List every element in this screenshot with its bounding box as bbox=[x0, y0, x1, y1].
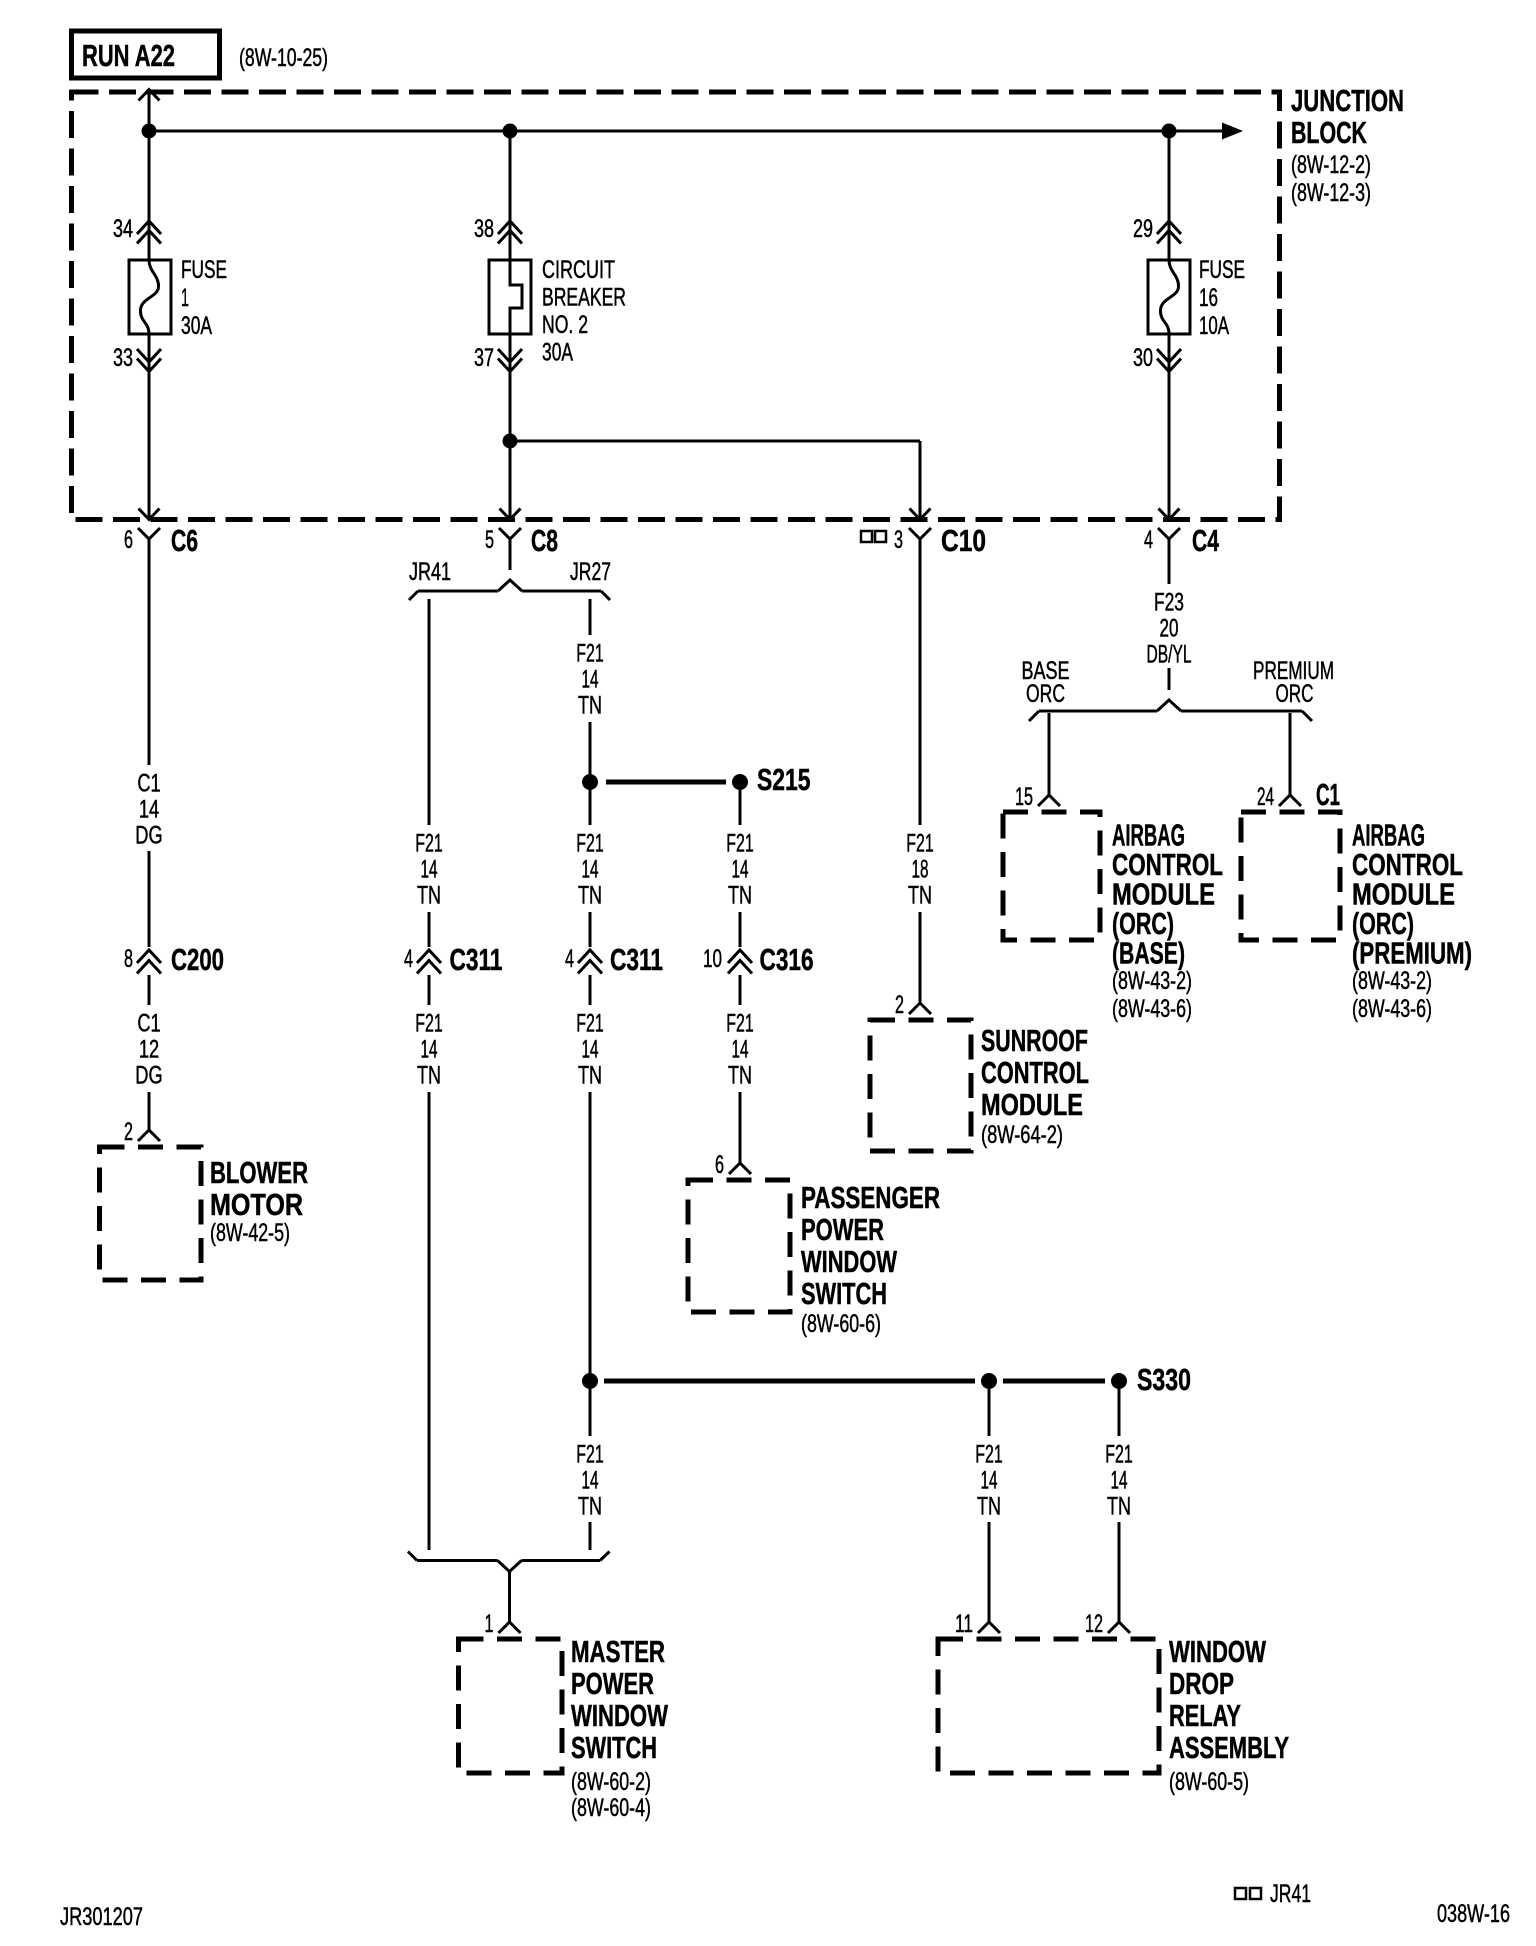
svg-text:(8W-42-5): (8W-42-5) bbox=[210, 1219, 290, 1247]
svg-text:F21: F21 bbox=[576, 1009, 604, 1037]
svg-text:2: 2 bbox=[895, 991, 904, 1019]
svg-text:TN: TN bbox=[908, 881, 932, 909]
svg-text:C311: C311 bbox=[610, 942, 663, 977]
svg-text:DB/YL: DB/YL bbox=[1147, 640, 1192, 668]
svg-text:1: 1 bbox=[485, 1610, 494, 1638]
svg-text:30A: 30A bbox=[181, 312, 212, 340]
svg-text:(8W-12-2): (8W-12-2) bbox=[1291, 151, 1371, 179]
svg-text:11: 11 bbox=[955, 1610, 973, 1638]
svg-text:14: 14 bbox=[421, 1035, 438, 1063]
svg-text:(8W-64-2): (8W-64-2) bbox=[981, 1121, 1063, 1149]
svg-text:TN: TN bbox=[578, 881, 602, 909]
svg-text:C200: C200 bbox=[171, 942, 224, 977]
svg-text:CIRCUIT: CIRCUIT bbox=[542, 256, 615, 284]
svg-text:038W-16: 038W-16 bbox=[1437, 1900, 1510, 1928]
svg-text:JR41: JR41 bbox=[409, 558, 451, 586]
svg-text:NO. 2: NO. 2 bbox=[542, 311, 588, 339]
svg-text:BLOCK: BLOCK bbox=[1291, 115, 1367, 150]
svg-text:(8W-12-3): (8W-12-3) bbox=[1291, 179, 1371, 207]
svg-text:JR301207: JR301207 bbox=[60, 1903, 143, 1931]
svg-text:F21: F21 bbox=[415, 1009, 443, 1037]
svg-text:TN: TN bbox=[417, 881, 441, 909]
svg-text:30: 30 bbox=[1133, 344, 1153, 372]
svg-text:(8W-10-25): (8W-10-25) bbox=[239, 44, 328, 72]
svg-text:C1: C1 bbox=[137, 769, 160, 797]
svg-text:F23: F23 bbox=[1154, 588, 1184, 616]
svg-text:14: 14 bbox=[582, 665, 599, 693]
svg-text:24: 24 bbox=[1257, 783, 1274, 811]
svg-text:F21: F21 bbox=[576, 639, 604, 667]
svg-text:(8W-43-2): (8W-43-2) bbox=[1112, 967, 1192, 995]
svg-text:C316: C316 bbox=[760, 942, 814, 977]
svg-text:ORC: ORC bbox=[1026, 680, 1065, 708]
svg-text:(PREMIUM): (PREMIUM) bbox=[1352, 935, 1472, 970]
svg-text:5: 5 bbox=[485, 526, 494, 554]
svg-text:29: 29 bbox=[1133, 215, 1153, 243]
svg-text:DG: DG bbox=[135, 1061, 162, 1089]
svg-text:JR41: JR41 bbox=[1270, 1880, 1311, 1908]
svg-text:6: 6 bbox=[715, 1151, 724, 1179]
svg-text:BREAKER: BREAKER bbox=[542, 284, 626, 312]
svg-text:WINDOW: WINDOW bbox=[1169, 1634, 1267, 1669]
svg-text:14: 14 bbox=[981, 1466, 998, 1494]
svg-text:4: 4 bbox=[404, 945, 413, 973]
svg-text:(8W-43-2): (8W-43-2) bbox=[1352, 967, 1432, 995]
svg-text:30A: 30A bbox=[542, 339, 573, 367]
svg-text:FUSE: FUSE bbox=[1199, 256, 1245, 284]
svg-text:JUNCTION: JUNCTION bbox=[1291, 83, 1404, 118]
svg-text:WINDOW: WINDOW bbox=[571, 1698, 669, 1733]
svg-text:4: 4 bbox=[1144, 526, 1153, 554]
svg-text:20: 20 bbox=[1160, 614, 1179, 642]
svg-text:F21: F21 bbox=[726, 829, 754, 857]
svg-text:16: 16 bbox=[1199, 284, 1218, 312]
svg-text:18: 18 bbox=[912, 855, 929, 883]
svg-text:38: 38 bbox=[474, 215, 494, 243]
svg-text:34: 34 bbox=[113, 215, 133, 243]
svg-text:(8W-43-6): (8W-43-6) bbox=[1112, 995, 1192, 1023]
svg-text:14: 14 bbox=[1111, 1466, 1128, 1494]
svg-text:F21: F21 bbox=[726, 1009, 754, 1037]
svg-text:14: 14 bbox=[582, 1466, 599, 1494]
svg-text:DROP: DROP bbox=[1169, 1666, 1234, 1701]
svg-text:(BASE): (BASE) bbox=[1112, 935, 1185, 970]
svg-text:6: 6 bbox=[124, 526, 133, 554]
svg-text:12: 12 bbox=[1085, 1610, 1103, 1638]
svg-text:(8W-60-2): (8W-60-2) bbox=[571, 1768, 651, 1796]
svg-text:F21: F21 bbox=[576, 829, 604, 857]
svg-text:4: 4 bbox=[565, 945, 574, 973]
svg-text:C10: C10 bbox=[941, 523, 986, 558]
svg-text:F21: F21 bbox=[906, 829, 934, 857]
svg-text:3: 3 bbox=[894, 526, 903, 554]
svg-text:8: 8 bbox=[124, 945, 133, 973]
svg-text:33: 33 bbox=[113, 344, 133, 372]
svg-text:C1: C1 bbox=[1316, 777, 1340, 812]
svg-text:CONTROL: CONTROL bbox=[981, 1055, 1089, 1090]
svg-text:14: 14 bbox=[582, 1035, 599, 1063]
svg-text:POWER: POWER bbox=[571, 1666, 654, 1701]
svg-text:ORC: ORC bbox=[1276, 680, 1314, 708]
svg-text:2: 2 bbox=[124, 1118, 133, 1146]
svg-text:F21: F21 bbox=[415, 829, 443, 857]
svg-text:ASSEMBLY: ASSEMBLY bbox=[1169, 1730, 1289, 1765]
svg-text:14: 14 bbox=[732, 1035, 749, 1063]
svg-text:12: 12 bbox=[139, 1035, 159, 1063]
svg-text:TN: TN bbox=[578, 691, 602, 719]
svg-text:15: 15 bbox=[1015, 783, 1033, 811]
svg-text:WINDOW: WINDOW bbox=[801, 1244, 898, 1279]
svg-text:(8W-43-6): (8W-43-6) bbox=[1352, 995, 1432, 1023]
svg-text:(8W-60-5): (8W-60-5) bbox=[1169, 1768, 1249, 1796]
svg-text:C8: C8 bbox=[531, 523, 558, 558]
svg-text:MODULE: MODULE bbox=[981, 1087, 1083, 1122]
svg-text:DG: DG bbox=[135, 821, 162, 849]
svg-text:(8W-60-6): (8W-60-6) bbox=[801, 1310, 881, 1338]
svg-text:RUN A22: RUN A22 bbox=[82, 38, 175, 73]
svg-text:SWITCH: SWITCH bbox=[801, 1276, 887, 1311]
svg-text:POWER: POWER bbox=[801, 1212, 884, 1247]
svg-text:RELAY: RELAY bbox=[1169, 1698, 1241, 1733]
svg-text:14: 14 bbox=[421, 855, 438, 883]
svg-text:10: 10 bbox=[703, 945, 722, 973]
svg-text:FUSE: FUSE bbox=[181, 256, 227, 284]
svg-text:S330: S330 bbox=[1137, 1362, 1191, 1397]
svg-text:TN: TN bbox=[417, 1061, 441, 1089]
svg-text:14: 14 bbox=[732, 855, 749, 883]
svg-text:TN: TN bbox=[977, 1492, 1001, 1520]
svg-text:F21: F21 bbox=[975, 1440, 1003, 1468]
svg-text:F21: F21 bbox=[1105, 1440, 1133, 1468]
svg-text:SWITCH: SWITCH bbox=[571, 1730, 657, 1765]
svg-text:C1: C1 bbox=[137, 1009, 160, 1037]
svg-text:37: 37 bbox=[474, 344, 494, 372]
svg-text:F21: F21 bbox=[576, 1440, 604, 1468]
svg-text:1: 1 bbox=[181, 284, 189, 312]
svg-text:MOTOR: MOTOR bbox=[210, 1187, 303, 1222]
svg-text:C6: C6 bbox=[171, 523, 198, 558]
svg-text:TN: TN bbox=[578, 1061, 602, 1089]
svg-text:TN: TN bbox=[728, 881, 752, 909]
svg-text:MASTER: MASTER bbox=[571, 1634, 665, 1669]
svg-text:TN: TN bbox=[578, 1492, 602, 1520]
svg-text:SUNROOF: SUNROOF bbox=[981, 1023, 1088, 1058]
svg-text:TN: TN bbox=[1107, 1492, 1131, 1520]
svg-text:(8W-60-4): (8W-60-4) bbox=[571, 1794, 651, 1822]
svg-text:10A: 10A bbox=[1199, 312, 1229, 340]
svg-text:C4: C4 bbox=[1192, 523, 1220, 558]
svg-text:14: 14 bbox=[139, 795, 159, 823]
svg-text:JR27: JR27 bbox=[570, 558, 611, 586]
svg-text:C311: C311 bbox=[450, 942, 503, 977]
svg-text:PASSENGER: PASSENGER bbox=[801, 1180, 940, 1215]
svg-text:BLOWER: BLOWER bbox=[210, 1155, 308, 1190]
svg-text:14: 14 bbox=[582, 855, 599, 883]
svg-text:TN: TN bbox=[728, 1061, 752, 1089]
svg-text:S215: S215 bbox=[757, 762, 811, 797]
